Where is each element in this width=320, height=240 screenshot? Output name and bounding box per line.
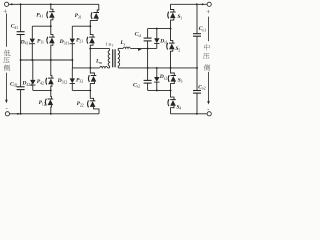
label P21 [76,37,83,43]
svg-text:312: 312 [62,81,68,85]
label D312 [57,78,68,84]
diode D421 [30,60,35,90]
svg-text:s2: s2 [164,76,167,80]
junction node dot 27 at (156.8,28.6) [156,28,158,30]
capacitor Co1 [193,4,201,68]
svg-text:-: - [207,107,209,113]
wire secondary bottom run [118,67,197,69]
svg-text:311: 311 [64,41,70,45]
wire top rail (LV bridge) [9,3,99,5]
junction node dot 26 at (196.8,113.8) [196,113,198,115]
svg-text:2: 2 [178,49,180,53]
svg-text:411: 411 [25,42,31,46]
wire phase A1 [32,25,51,27]
junction node dot 4 at (196.8,4.3) [196,3,198,5]
junction node dot 19 at (50.8,90.4) [50,89,52,91]
label Ds2 [159,74,167,80]
svg-text:d1: d1 [14,26,18,30]
svg-text:42: 42 [40,81,44,85]
junction node dot 20 at (90.3,90.4) [89,89,91,91]
junction node dot 8 at (20.6,60) [20,59,22,61]
diode Ds2 [154,68,159,91]
svg-text:m: m [99,61,102,65]
junction node dot 15 at (147.6,67.9) [147,67,149,69]
junction node dot 5 at (202.6,4.3) [202,3,204,5]
svg-text:41: 41 [40,15,44,19]
svg-text:12: 12 [42,102,46,106]
label P31 [75,13,82,19]
diode D312 [70,68,75,91]
terminal LV+ circle [5,2,9,6]
junction node dot 7 at (90.3,26.2) [89,25,91,27]
svg-text:-: - [6,107,8,113]
IGBT switch P11 [47,26,55,60]
IGBT switch S2 [167,29,175,68]
IGBT switch P41 [47,4,55,26]
diode Ds1 [154,29,159,49]
svg-text:o1: o1 [202,29,206,33]
label Cd1 [11,24,18,30]
IGBT switch P22 [88,90,99,113]
label S3 [178,77,183,83]
junction node dot 13 at (147.6,48.5) [147,48,149,50]
label P12 [39,100,46,106]
label S1 [177,14,182,20]
terminal MV+ circle [207,2,211,6]
terminal LV- circle [5,112,9,116]
label D421 [21,81,32,87]
IGBT switch S4 [168,90,176,113]
svg-text:22: 22 [80,103,84,107]
inductor Ls [123,47,130,49]
text mid-voltage-side char 中 [204,44,210,50]
junction node dot 6 at (50.8,26.2) [50,25,52,27]
label Co1 [199,26,206,32]
junction node dot 9 at (32.3,60) [31,59,33,61]
junction node dot 17 at (170.5,67.9) [170,67,172,69]
junction node dot 16 at (156.8,67.9) [156,67,158,69]
svg-text:3: 3 [181,80,183,84]
svg-text:s2: s2 [137,85,140,89]
label P32 [76,77,83,83]
label Cs2 [133,82,140,88]
svg-text:11: 11 [40,41,44,45]
text low-voltage-side char 侧 [4,65,10,71]
IGBT switch S3 [168,68,176,91]
voltage arrow line MV upper [208,17,210,42]
current arrow is [138,49,142,51]
svg-text:32: 32 [79,80,83,84]
wire MV cell top [148,28,171,30]
label Cd2 [10,81,17,87]
junction node dot 11 at (72.4,60) [71,59,73,61]
label D411 [20,39,31,45]
voltage arrow line LV upper [5,14,7,47]
text mid-voltage-side char 压 [203,53,209,59]
junction node dot 14 at (90.3,67.9) [89,67,91,69]
label Cs1 [135,32,142,38]
label Ds1 [159,38,167,44]
junction node dot 2 at (20.6,4.3) [20,3,22,5]
svg-text:d2: d2 [14,84,18,88]
junction node dot 28 at (170.5,28.6) [170,28,172,30]
wire secondary top run [130,47,156,49]
junction node dot 18 at (197,67.9) [196,67,198,69]
diode D311 [70,26,75,60]
capacitor Cs2 [144,68,152,91]
junction node dot 10 at (50.8,60) [50,59,52,61]
svg-text:421: 421 [26,83,32,87]
wire Cs1 bottom link [147,48,149,68]
svg-text:s1: s1 [138,34,141,38]
capacitor Cd1 [17,4,25,60]
text low-voltage-side char 压 [3,57,9,63]
transformer primary winding [108,49,110,68]
wire top rail (MV side) [171,3,208,5]
inductor Lm [100,66,108,68]
IGBT switch P32 [88,68,96,91]
label D311 [59,39,70,45]
svg-text:o2: o2 [202,87,206,91]
transformer secondary winding [118,48,120,68]
label S2 [175,46,180,52]
wire bottom rail (MV side) [171,113,208,115]
wire bottom rail (LV bridge) [10,113,100,115]
junction node dot 24 at (20.6,113.8) [20,113,22,115]
capacitor Co2 [193,68,201,114]
label P42 [37,79,44,85]
label P11 [37,38,44,44]
junction node dot 3 at (50.8,4.3) [50,3,52,5]
junction node dot 22 at (170.5,90.4) [170,89,172,91]
junction node dot 21 at (156.8,90.4) [156,89,158,91]
voltage arrow line LV lower with arrowhead [5,73,7,101]
wire Lm feed [72,67,99,69]
label Co2 [198,84,205,90]
wire phase B1 [72,25,90,27]
voltage arrow line MV lower with arrowhead [208,72,210,102]
IGBT switch S1 [168,4,176,28]
diode D411 [30,26,35,60]
svg-text:+: + [206,9,210,16]
capacitor Cs1 [144,29,152,49]
terminal MV- circle [207,112,211,116]
capacitor Cd2 [17,60,25,114]
wire secondary top [118,47,123,49]
svg-text:1: 1 [180,17,182,21]
wire primary top [90,48,109,50]
label Ls [119,40,125,46]
wire phase A2 [33,89,51,91]
wire leg B mid link [89,49,91,68]
junction node dot 1 at (11.8,4.3) [11,3,13,5]
text low-voltage-side char 低 [4,50,10,56]
svg-text:31: 31 [78,15,82,19]
wire neutral rail [21,59,73,61]
wire MV cell bottom [148,89,171,91]
wire neutral jog down [71,60,73,68]
label S4 [176,104,181,110]
IGBT switch P12 [45,90,53,113]
junction node dot 12 at (90.3,48.6) [89,48,91,50]
junction node dot 23 at (17.8,113.8) [17,113,19,115]
svg-text:21: 21 [79,40,83,44]
label P41 [36,12,43,18]
IGBT switch P31 [90,4,99,26]
transformer core [112,49,114,67]
junction node dot 25 at (50.8,113.8) [50,113,52,115]
IGBT switch P42 [46,60,54,90]
svg-text:4: 4 [179,107,181,111]
wire phase B2 [72,89,90,91]
label Lm [95,59,102,65]
text mid-voltage-side char 侧 [204,64,210,70]
IGBT switch P21 [87,26,95,48]
label P22 [77,101,84,107]
